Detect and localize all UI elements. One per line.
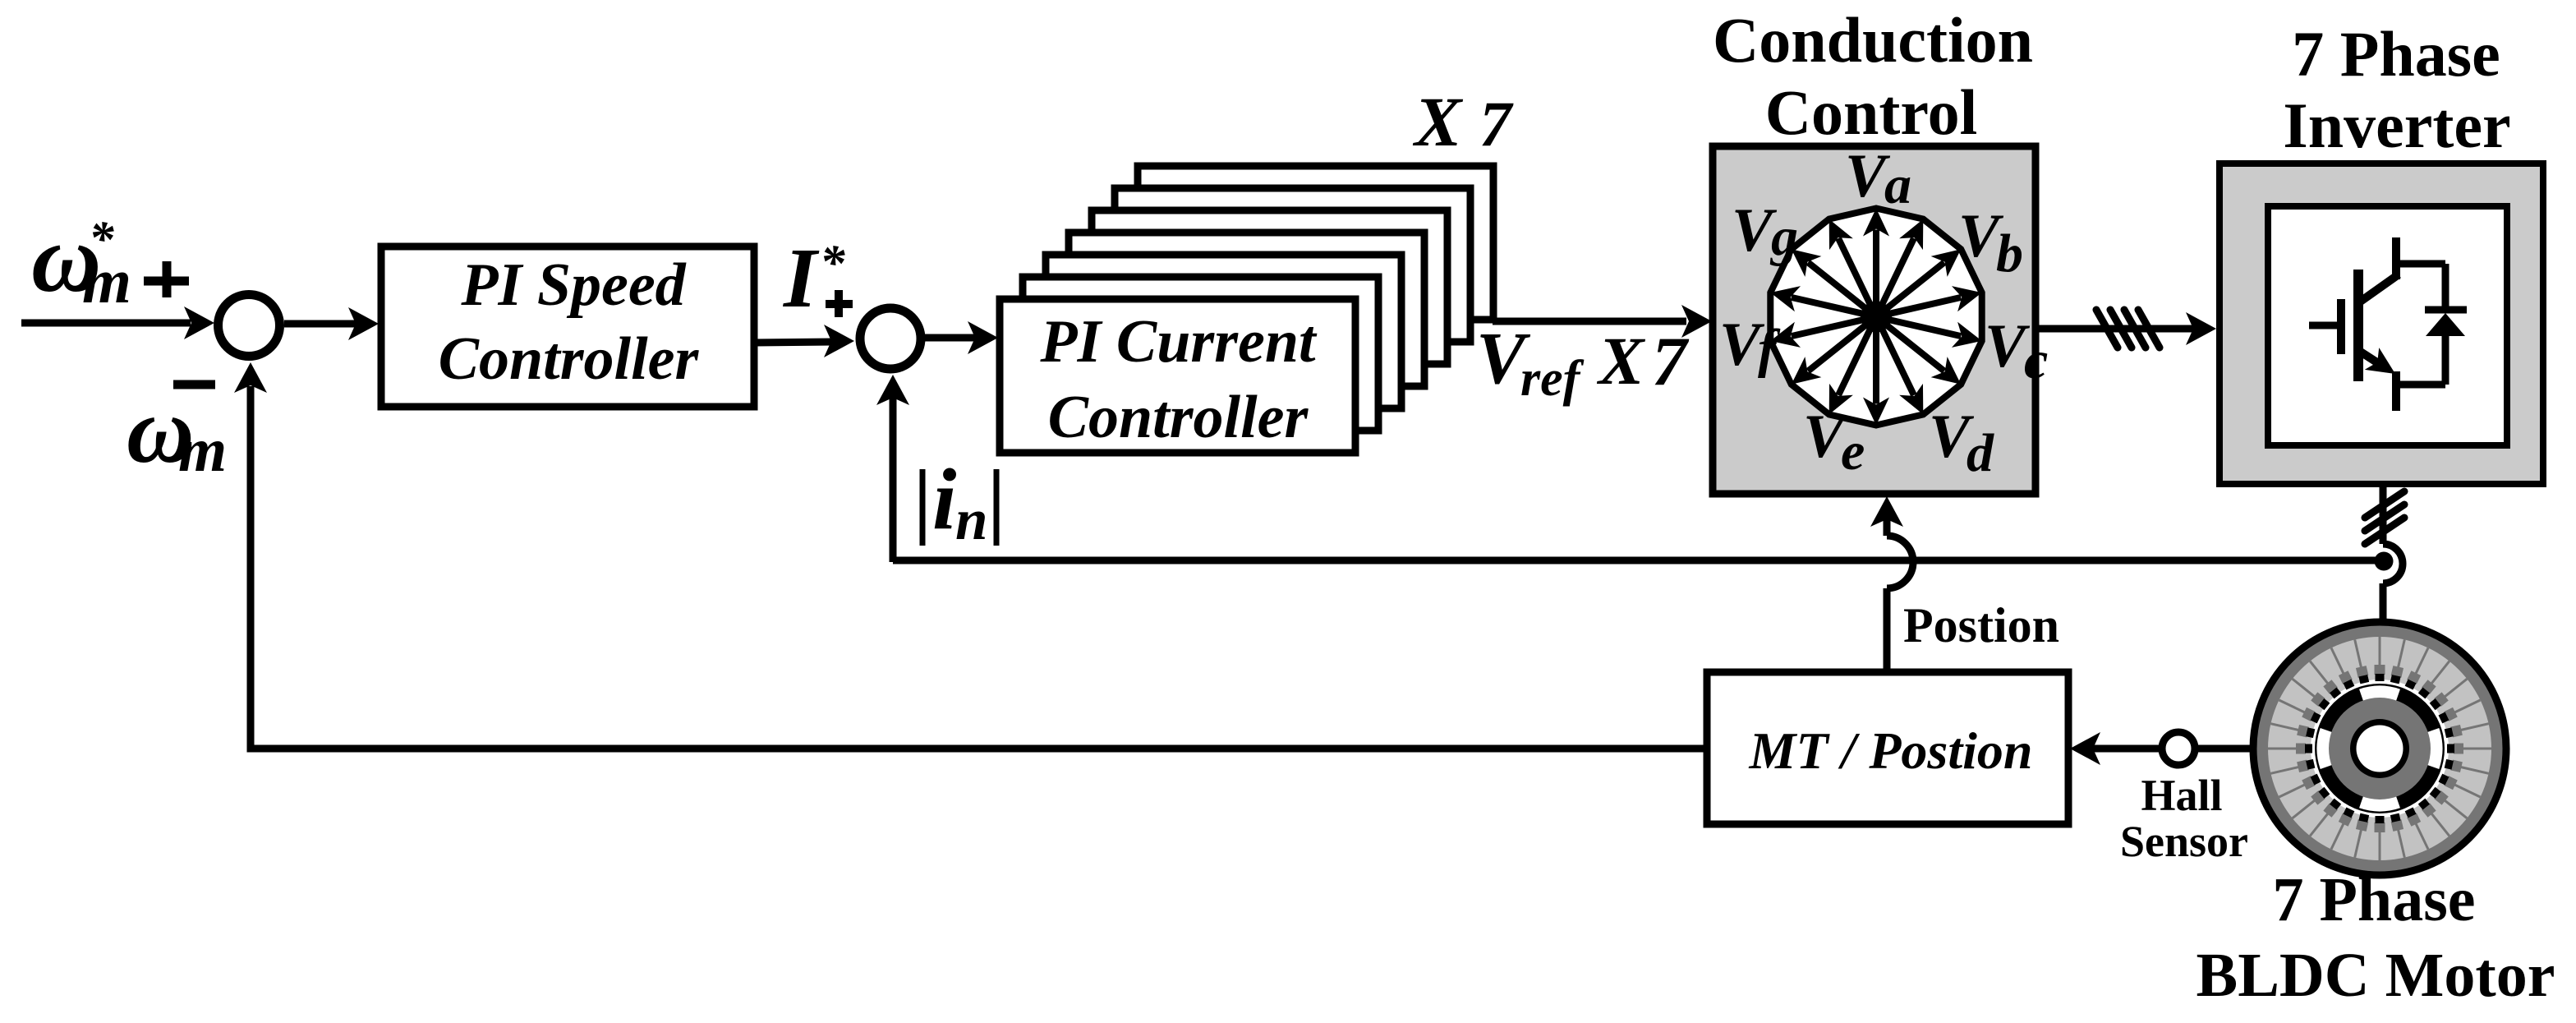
motor outer rim	[2253, 622, 2506, 875]
svg-text:Controller: Controller	[1048, 384, 1309, 451]
svg-text:Sensor: Sensor	[2120, 817, 2248, 866]
svg-text:X: X	[1596, 323, 1646, 399]
wire: current controllers to conduction control	[1493, 318, 1686, 325]
svg-text:Control: Control	[1765, 76, 1978, 148]
slot nubs	[2305, 674, 2454, 823]
motor stator lamination	[2268, 637, 2491, 860]
wire: conduction control to inverter with 4 slashes	[2035, 325, 2193, 333]
svg-text:Postion: Postion	[1903, 598, 2059, 652]
node omega*_m input label	[31, 205, 131, 316]
wire: |i_n| horizontal feedback line from motor tap	[893, 557, 2380, 564]
block: MT / Postion	[1707, 672, 2068, 824]
svg-text:b: b	[1996, 223, 2023, 283]
labels Va..Vg around wheel	[1719, 142, 2048, 483]
svg-text:MT / Postion: MT / Postion	[1749, 721, 2033, 780]
voltage-vector polygon (14-gon)	[1770, 209, 1981, 426]
svg-text:Inverter: Inverter	[2283, 90, 2510, 161]
svg-text:Hall: Hall	[2141, 771, 2222, 820]
wire: input arrow into S1	[21, 320, 191, 327]
stator slot keystones	[2296, 665, 2463, 832]
plus sign at summing junction S1	[144, 261, 189, 297]
summing junction S2	[860, 308, 921, 369]
svg-text:ref: ref	[1520, 351, 1585, 407]
14 phase-voltage vector arrows	[1768, 209, 1985, 426]
svg-text:n: n	[955, 488, 988, 552]
svg-text:a: a	[1884, 155, 1911, 215]
block: Conduction Control	[1713, 146, 2035, 494]
wire: PI speed controller to S2	[754, 342, 832, 343]
wire: motor to hall sensor	[2198, 745, 2253, 753]
rotor body	[2329, 698, 2431, 800]
IGBT Q1 with freewheel diode D1	[2309, 237, 2467, 411]
label |i_n|	[922, 451, 996, 552]
svg-text:7: 7	[1479, 88, 1514, 159]
shaft ring	[2350, 719, 2409, 778]
svg-text:m: m	[82, 246, 131, 316]
svg-text:X: X	[1412, 82, 1464, 161]
minus sign for feedback into S1	[173, 380, 215, 389]
block: PI Speed Controller U1	[381, 247, 754, 407]
svg-text:i: i	[932, 451, 956, 547]
svg-text:g: g	[1769, 207, 1798, 267]
wire: S2 to PI current controller	[925, 334, 976, 342]
magnet ring	[2315, 684, 2445, 813]
block: PI Current Controller stack (x7)	[1000, 166, 1493, 453]
rotor magnets (white)	[2362, 692, 2399, 695]
label V_ref X 7	[1476, 318, 1690, 407]
svg-text:m: m	[178, 416, 227, 485]
svg-text:PI Speed: PI Speed	[460, 251, 686, 319]
svg-text:I: I	[782, 231, 820, 325]
svg-text:Controller: Controller	[439, 325, 700, 393]
junction dot (current tap)	[2375, 552, 2394, 571]
air gap ring	[2311, 680, 2449, 818]
wire: speed feedback from MT box to S1	[251, 386, 1707, 749]
wire: inverter to motor with 3 slashes and tap loop	[2380, 484, 2387, 544]
svg-text:c: c	[2024, 330, 2048, 390]
svg-text:PI Current: PI Current	[1039, 308, 1318, 376]
label PI Current Controller	[1039, 308, 1318, 451]
stator slot lines	[2268, 637, 2491, 860]
svg-text:7 Phase: 7 Phase	[2292, 18, 2500, 90]
hall sensor circle	[2162, 732, 2195, 765]
svg-text:*: *	[820, 236, 845, 291]
svg-text:d: d	[1966, 423, 1994, 483]
svg-text:Conduction: Conduction	[1713, 4, 2033, 76]
wire: S1 to PI speed controller	[284, 320, 356, 328]
svg-text:BLDC Motor: BLDC Motor	[2196, 941, 2555, 1010]
summing junction S1	[218, 295, 280, 357]
plus sign at summing junction S2	[826, 290, 853, 317]
wire: |i_n| feedback up into S2	[890, 398, 897, 562]
node omega_m feedback label	[126, 378, 227, 485]
svg-text:7: 7	[1652, 323, 1690, 400]
wire: Postion from MT box up to conduction control (hops over i_n line)	[1884, 588, 1891, 672]
node I* label	[782, 231, 845, 325]
svg-text:e: e	[1841, 422, 1865, 482]
wire: hall sensor to MT box	[2092, 745, 2159, 753]
shaft hole	[2357, 726, 2403, 772]
wheel center dot	[1861, 302, 1892, 333]
